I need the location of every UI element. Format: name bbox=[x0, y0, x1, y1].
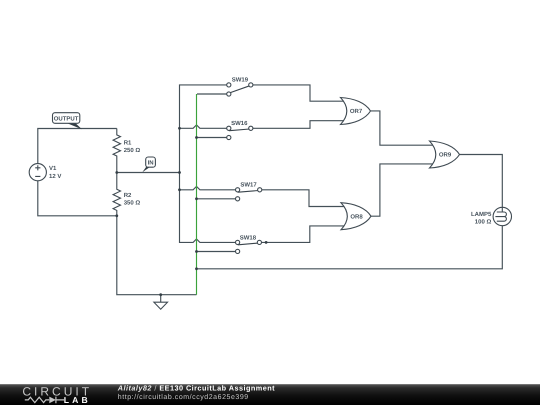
svg-text:250 Ω: 250 Ω bbox=[124, 147, 141, 154]
node green SW16 stub bbox=[195, 136, 198, 139]
wire OR8 output to OR9 input B bbox=[371, 164, 435, 216]
svg-text:SW18: SW18 bbox=[240, 234, 257, 241]
lamp LAMP5 bbox=[471, 207, 512, 225]
wire mid node IN (R1/R2 junction to bus) bbox=[117, 172, 180, 174]
wire R2 bottom down to bottom rail bbox=[117, 216, 197, 295]
or-gate OR7 bbox=[341, 98, 371, 125]
or-gate OR8 bbox=[341, 203, 371, 230]
svg-text:12 V: 12 V bbox=[49, 173, 61, 180]
svg-text:LAB: LAB bbox=[64, 395, 91, 405]
switch SW17 bbox=[236, 182, 262, 201]
wire SW18 bottom throw stub bbox=[197, 251, 236, 253]
wire OR9 output to lamp top bbox=[460, 155, 503, 208]
svg-text:350 Ω: 350 Ω bbox=[124, 199, 141, 206]
node green SW18 stub bbox=[195, 250, 198, 253]
svg-text:V1: V1 bbox=[49, 165, 57, 172]
svg-text:R1: R1 bbox=[124, 139, 132, 146]
svg-text:http://circuitlab.com/ccyd2a62: http://circuitlab.com/ccyd2a625e399 bbox=[118, 393, 249, 401]
switch SW18 bbox=[236, 234, 262, 253]
resistor R2 bbox=[113, 173, 140, 216]
resistor R1 bbox=[113, 129, 140, 173]
node R2 bottom junction bbox=[115, 214, 118, 217]
switch SW16 bbox=[227, 120, 253, 140]
wire SW19 bottom throw stub bbox=[197, 93, 227, 95]
wire green ground-net vertical bbox=[196, 94, 198, 295]
logo resistor-diode glyph bbox=[25, 397, 64, 404]
wire ground stub bbox=[160, 295, 162, 302]
svg-text:OR7: OR7 bbox=[350, 108, 363, 115]
wire SW16 top branch (hop over green) bbox=[180, 125, 227, 128]
wire SW16 common to OR7 input B bbox=[253, 121, 346, 129]
wire V1 top to R1 top bbox=[38, 129, 117, 164]
node SW18 common wire joint bbox=[265, 241, 268, 244]
wire SW17 top branch (hop over green) bbox=[180, 186, 236, 189]
svg-text:R2: R2 bbox=[124, 192, 132, 199]
footer bar bbox=[0, 384, 540, 405]
wire SW17 common to OR8 input A bbox=[262, 190, 346, 207]
svg-text:OUTPUT: OUTPUT bbox=[54, 115, 79, 122]
wire SW17 bottom throw stub bbox=[197, 198, 236, 200]
wire dark bus IN-net vertical with SW19 top branch and SW18 top branch (hop over green) bbox=[180, 85, 236, 243]
svg-text:Alitaly82 / EE130 CircuitLab A: Alitaly82 / EE130 CircuitLab Assignment bbox=[117, 383, 275, 392]
wire SW16 bottom throw stub bbox=[197, 137, 227, 139]
node bus SW16 branch bbox=[178, 127, 181, 130]
wire SW18 common to OR8 input B bbox=[261, 226, 346, 243]
wire SW19 common to OR7 input A bbox=[253, 85, 346, 101]
ground bbox=[154, 302, 168, 309]
node green SW17 stub bbox=[195, 197, 198, 200]
svg-text:OR8: OR8 bbox=[350, 213, 363, 220]
node bus SW17 branch bbox=[178, 188, 181, 191]
node R1/R2 junction bbox=[115, 171, 118, 174]
wire lamp bottom return to green bus bbox=[197, 226, 503, 269]
net flag OUTPUT bbox=[53, 113, 83, 130]
svg-text:SW19: SW19 bbox=[232, 77, 249, 84]
svg-text:SW16: SW16 bbox=[231, 120, 248, 127]
svg-text:IN: IN bbox=[148, 160, 154, 167]
node green lamp return bbox=[195, 267, 198, 270]
voltage source V1 bbox=[29, 164, 61, 181]
wire OR7 output to OR9 input A bbox=[371, 111, 435, 145]
svg-text:100 Ω: 100 Ω bbox=[475, 219, 492, 226]
node IN wire to bus bbox=[178, 171, 181, 174]
wire V1 bottom to R2 bottom bbox=[38, 181, 117, 216]
or-gate OR9 bbox=[430, 141, 460, 168]
switch SW19 bbox=[227, 77, 253, 97]
node ground junction bbox=[159, 293, 162, 296]
svg-text:OR9: OR9 bbox=[439, 152, 452, 159]
net flag IN bbox=[142, 157, 155, 172]
svg-text:LAMP5: LAMP5 bbox=[471, 211, 492, 218]
svg-text:SW17: SW17 bbox=[240, 182, 257, 189]
